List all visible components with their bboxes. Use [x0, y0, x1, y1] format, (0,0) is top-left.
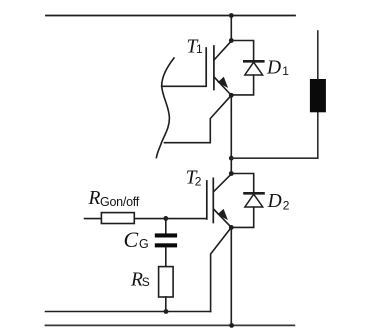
svg-text:1: 1: [196, 42, 203, 56]
wire: top rail down to T1 collector node: [230, 16, 232, 41]
node: gate network junction: [163, 216, 168, 221]
resistor R_Gon/off body: [101, 213, 134, 224]
arrowhead: T1 emitter arrow: [219, 78, 227, 87]
wire: D2 branch bottom (anode lead down and left to T2 emitter node): [231, 207, 253, 227]
wire: bottom DC- rail: [46, 324, 295, 326]
label R_Gon/off: [88, 188, 140, 209]
node: T2 collector node: [229, 171, 234, 176]
label D2: [267, 191, 290, 212]
diode D2 cathode bar: [245, 192, 264, 195]
label T1: [187, 36, 204, 57]
svg-text:D: D: [266, 58, 281, 79]
svg-text:1: 1: [282, 64, 289, 78]
wire: D1 branch top (collector node to diode cathode lead): [231, 41, 253, 62]
node: T1 collector node: [229, 38, 234, 43]
svg-text:S: S: [142, 275, 150, 289]
transistor T2 body bar: [212, 178, 214, 222]
svg-text:R: R: [88, 188, 101, 209]
node: T2 emitter node: [229, 225, 234, 230]
wire: T2 auxiliary emitter return (emitter node down-left to lower gate rail): [211, 227, 232, 311]
label T2: [186, 168, 202, 189]
label D1: [266, 58, 289, 79]
diode D2 triangle: [245, 194, 263, 207]
node: R_S / gate return rail junction: [164, 309, 169, 314]
wire: T2 gate lead input stub: [85, 218, 102, 220]
wire: D2 branch top (collector node to diode cathode lead): [231, 174, 253, 194]
label C_G: [124, 227, 149, 252]
load (black rectangle): [310, 79, 326, 112]
transistor T1 body bar: [213, 46, 215, 90]
wire: break squiggle through T1 gate and auxiliary emitter leads: [156, 58, 174, 158]
node: T1 emitter node: [229, 93, 234, 98]
transistor T2 gate bar: [206, 181, 208, 219]
label R_S: [130, 269, 150, 290]
capacitor C_G bottom plate: [155, 243, 177, 247]
wire: top DC+ rail: [46, 15, 295, 17]
svg-text:2: 2: [195, 175, 202, 189]
wire: T1 auxiliary emitter return (emitter node to squiggle): [165, 95, 232, 142]
svg-text:2: 2: [283, 199, 290, 213]
transistor T1 gate bar: [205, 48, 207, 86]
wire: output node to load bottom: [231, 112, 317, 158]
arrowhead: T2 emitter arrow: [219, 210, 227, 219]
wire: main column from T1 emitter node through output node to T2 collector node: [230, 95, 232, 173]
wire: load top stub: [317, 31, 319, 79]
svg-text:C: C: [124, 227, 139, 252]
wire: R_S bottom to lower gate rail: [165, 297, 167, 312]
wire: gate wire from R_Gon/off to T2 gate bar: [134, 218, 206, 220]
wire: C_G bottom plate to R_S top: [165, 247, 167, 266]
wire: main column from T2 emitter node down to bottom rail: [230, 227, 232, 325]
wire: T1 emitter slant: [214, 77, 231, 95]
wire: T1 collector slant: [214, 41, 231, 60]
svg-text:D: D: [267, 191, 282, 212]
capacitor C_G top plate: [155, 233, 177, 237]
wire: T2 collector slant: [214, 174, 232, 192]
node: output node (load branch junction): [229, 156, 234, 161]
wire: T1 gate lead: [162, 85, 206, 87]
wire: T2 emitter slant: [214, 209, 232, 227]
svg-text:G: G: [139, 237, 148, 251]
wire: lower gate return rail: [46, 311, 211, 313]
wire: D1 branch bottom (anode lead down and left to emitter node): [231, 75, 253, 95]
resistor R_S body: [159, 267, 174, 297]
wire: junction down to C_G top plate: [165, 218, 167, 233]
svg-text:Gon/off: Gon/off: [100, 195, 140, 209]
diode D1 triangle: [245, 62, 263, 75]
node: main column / bottom rail junction: [229, 323, 234, 328]
diode D1 cathode bar: [244, 60, 263, 63]
node: junction of top rail and T1 collector branch: [229, 13, 234, 18]
